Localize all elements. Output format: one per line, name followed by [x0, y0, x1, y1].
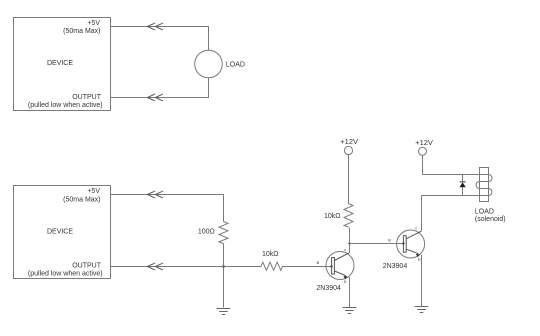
wire Q1 collector up to junction [349, 244, 351, 254]
svg-text:B: B [388, 238, 391, 243]
label (50ma Max) (bottom device) [63, 196, 100, 203]
resistor 10k (horizontal, base of Q1) [261, 262, 283, 270]
pin label E (Q2 emitter) [418, 257, 421, 262]
wire +5V from bottom device to 100ohm resistor [111, 195, 224, 222]
label DEVICE (top device) [47, 60, 73, 67]
label 10k (horizontal resistor) [262, 251, 279, 258]
svg-text:DEVICE: DEVICE [47, 60, 73, 67]
svg-text:(pulled low when active): (pulled low when active) [28, 270, 103, 277]
resistor 10k (vertical pull-up to +12V) [344, 204, 353, 244]
device box U2 (bottom DEVICE) [14, 186, 111, 279]
svg-text:LOAD: LOAD [475, 209, 494, 216]
wire OUTPUT from bottom device to 10k resistor [111, 266, 262, 268]
svg-text:10kΩ: 10kΩ [324, 213, 341, 220]
pin label c (Q2 collector) [415, 225, 417, 230]
pin label B (Q2 base) [388, 238, 391, 243]
label DEVICE (bottom device) [47, 229, 73, 236]
label 10k (vertical resistor) [324, 213, 341, 220]
svg-text:2N3904: 2N3904 [316, 285, 341, 292]
resistor 100ohm (vertical) [219, 222, 228, 244]
svg-text:+5V: +5V [87, 188, 100, 195]
svg-text:(pulled low when active): (pulled low when active) [28, 102, 103, 109]
label (solenoid) [475, 216, 506, 223]
wire from 10k resistor to Q1 base [282, 266, 332, 268]
pin label E (Q1 emitter) [344, 279, 347, 284]
wire +12V to solenoid top [423, 174, 489, 176]
diode D1 (flyback across solenoid) [460, 175, 466, 196]
svg-text:(50ma Max): (50ma Max) [63, 28, 100, 35]
ground G2 (below Q1) [343, 308, 357, 314]
label (pulled low when active) (top device) [28, 102, 103, 109]
label (pulled low when active) (bottom device) [28, 270, 103, 277]
power terminal +12V (right) [419, 147, 427, 174]
wire junction to Q2 base [350, 243, 404, 245]
svg-text:+5V: +5V [87, 20, 100, 27]
svg-text:c: c [415, 225, 417, 230]
label OUTPUT (top device pin) [72, 94, 102, 101]
label OUTPUT (bottom device pin) [72, 263, 102, 270]
label LOAD (solenoid) [475, 209, 494, 216]
svg-text:100Ω: 100Ω [198, 228, 215, 235]
svg-text:B: B [317, 260, 320, 265]
wire solenoid bottom to Q2 collector [422, 195, 489, 197]
label +12V (right) [415, 138, 433, 147]
svg-text:OUTPUT: OUTPUT [72, 94, 102, 101]
wire Q2 emitter to ground [421, 255, 423, 307]
svg-text:DEVICE: DEVICE [47, 229, 73, 236]
solenoid plunger rectangle [480, 168, 489, 202]
junction dot at output/resistor crossing [222, 265, 225, 268]
load L1 (lamp circle) [195, 50, 223, 78]
arrow chevrons on bottom OUTPUT wire [147, 263, 163, 270]
svg-text:E: E [344, 279, 347, 284]
wire from 100ohm resistor down to ground [223, 244, 225, 308]
power terminal +12V (left) [344, 146, 352, 203]
wire Q1 emitter to ground [349, 277, 351, 308]
arrow chevrons on bottom +5V wire [147, 191, 163, 198]
wire +5V from top device to load [111, 27, 209, 51]
svg-text:2N3904: 2N3904 [383, 263, 408, 270]
wire return from load to top device OUTPUT [111, 78, 209, 98]
arrow chevrons on top OUTPUT wire [147, 94, 163, 101]
ground G1 (below 100ohm) [217, 309, 231, 315]
svg-text:+12V: +12V [340, 137, 358, 146]
label 2N3904 (Q2) [383, 263, 408, 270]
svg-text:E: E [418, 257, 421, 262]
label +12V (left) [340, 137, 358, 146]
svg-text:(solenoid): (solenoid) [475, 216, 506, 223]
transistor Q2 2N3904 [397, 230, 425, 258]
label 100ohm [198, 228, 215, 235]
junction node (collector Q1 / 10k / Q2 base) [348, 242, 350, 244]
svg-text:OUTPUT: OUTPUT [72, 263, 102, 270]
device box U1 (top DEVICE) [14, 18, 111, 111]
pin label B (Q1 base) [317, 260, 320, 265]
arrow chevrons on top +5V wire [147, 23, 163, 30]
ground G3 (below Q2) [415, 307, 429, 313]
label (50ma Max) (top device) [63, 28, 100, 35]
wire Q2 collector up to solenoid return [421, 196, 423, 232]
svg-text:(50ma Max): (50ma Max) [63, 196, 100, 203]
label +5V (top device pin) [87, 20, 100, 27]
pin label c (Q1 collector) [344, 247, 346, 252]
label +5V (bottom device pin) [87, 188, 100, 195]
label LOAD (top) [226, 62, 245, 69]
svg-text:LOAD: LOAD [226, 62, 245, 69]
svg-text:10kΩ: 10kΩ [262, 251, 279, 258]
solenoid coil (LOAD) [476, 175, 492, 196]
label 2N3904 (Q1) [316, 285, 341, 292]
svg-text:c: c [344, 247, 346, 252]
svg-text:+12V: +12V [415, 138, 433, 147]
transistor Q1 2N3904 [326, 252, 354, 280]
